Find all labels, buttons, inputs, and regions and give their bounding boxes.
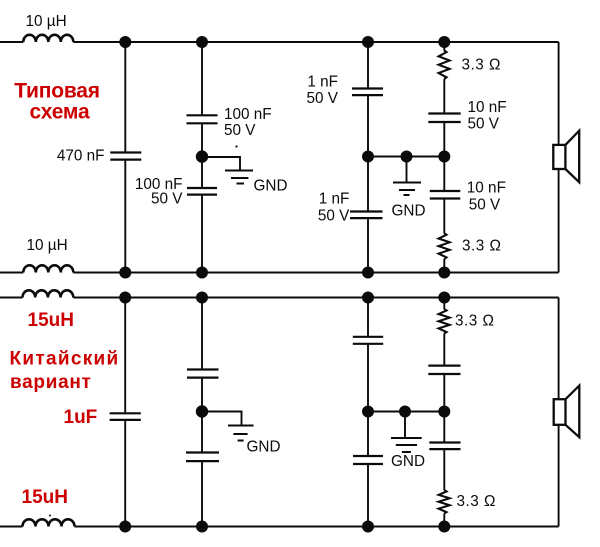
wire: circuit 2 right vertical (speaker branch) xyxy=(558,298,560,527)
capacitor 1uF plates xyxy=(110,413,141,420)
wire: circuit 2 column C middle xyxy=(367,345,369,455)
ground GND1 (circuit 1 node B) xyxy=(225,171,253,184)
capacitor (circuit 2 column B upper) plates xyxy=(187,370,219,378)
inductor 15uH bottom (circuit 2) xyxy=(23,519,75,526)
wire: circuit 2 GND4 stem xyxy=(404,412,406,438)
junction: circuit 2 top rail at column A xyxy=(119,292,131,304)
wire: circuit 2 column D upper xyxy=(443,334,445,365)
ground GND3 (circuit 2 node B) xyxy=(228,426,254,441)
junction: circuit 2 mid link at column D xyxy=(438,406,450,418)
junction: circuit 2 mid link GND tap xyxy=(399,406,411,418)
capacitor (circuit 2 column C upper) plates xyxy=(353,337,383,344)
svg-text:GND: GND xyxy=(254,178,288,195)
wire: circuit 1 column D top stub xyxy=(443,42,445,51)
wire: circuit 1 top rail left segment xyxy=(0,41,23,43)
junction: circuit 1 node B (GND tap) xyxy=(196,150,208,162)
value label 1 nF 50 V (upper) xyxy=(307,73,339,107)
value label 10 nF 50 V (lower) xyxy=(467,179,506,213)
wire: circuit 1 bottom rail left segment xyxy=(0,272,23,274)
capacitor 100 nF 50 V (lower) plates xyxy=(187,188,217,195)
value label 100 nF 50 V (lower) xyxy=(135,176,183,208)
junction: circuit 1 top rail at column D xyxy=(438,36,450,48)
ground GND2 (circuit 1 mid node) xyxy=(393,183,421,196)
junction: circuit 2 mid link at column C xyxy=(362,406,374,418)
svg-text:50 V: 50 V xyxy=(469,197,501,214)
wire: circuit 2 GND3 bracket xyxy=(202,412,242,425)
wire: circuit 1 middle link C to D xyxy=(368,156,444,158)
svg-text:схема: схема xyxy=(30,101,90,124)
value label 10 nF 50 V (upper) xyxy=(468,99,507,133)
junction: circuit 2 node B (GND tap) xyxy=(196,405,208,417)
wire: circuit 1 column B lower xyxy=(201,196,203,273)
junction: circuit 1 top rail at column A xyxy=(119,36,131,48)
capacitor (circuit 2 column D upper) plates xyxy=(428,366,460,374)
capacitor (circuit 2 column B lower) plates xyxy=(186,453,219,462)
capacitor (circuit 2 column D lower) plates xyxy=(429,443,460,450)
wire: circuit 1 column B middle xyxy=(201,124,203,187)
junction: circuit 1 bottom rail at column A xyxy=(119,267,131,279)
junction: circuit 2 bottom rail at column D xyxy=(438,521,450,533)
svg-text:10 µH: 10 µH xyxy=(27,237,68,254)
wire: circuit 2 column B middle xyxy=(201,379,203,452)
resistor 3.3 ohm (circuit 1 upper) xyxy=(439,50,450,79)
svg-text:Типовая: Типовая xyxy=(14,79,100,102)
wire: circuit 1 column B upper xyxy=(201,42,203,114)
svg-text:3.3 Ω: 3.3 Ω xyxy=(462,56,501,73)
inductor 15uH top (circuit 2) xyxy=(23,290,74,297)
speck above inductor 15uH bottom xyxy=(49,515,51,517)
wire: circuit 2 column D lower xyxy=(443,450,445,490)
wire: circuit 1 column D upper xyxy=(443,79,445,113)
wire: circuit 2 bottom rail right segment xyxy=(75,526,559,528)
wire: circuit 1 column C middle xyxy=(367,96,369,211)
capacitor 1 nF 50 V (lower) plates xyxy=(350,212,383,219)
wire: circuit 1 top rail right segment xyxy=(73,41,558,43)
capacitor 10 nF 50 V (lower) plates xyxy=(430,191,461,199)
wire: circuit 1 column C upper xyxy=(367,42,369,88)
junction: circuit 1 bottom rail at column C xyxy=(362,267,374,279)
svg-text:100 nF: 100 nF xyxy=(224,106,272,123)
junction: circuit 2 bottom rail at column B xyxy=(196,521,208,533)
junction: circuit 1 bottom rail at column B xyxy=(196,267,208,279)
junction: circuit 1 bottom rail at column D xyxy=(438,267,450,279)
svg-text:15uH: 15uH xyxy=(28,310,74,331)
value label 1 nF 50 V (lower) xyxy=(318,190,350,224)
wire: circuit 2 column C upper xyxy=(367,298,369,336)
wire: circuit 2 column B lower xyxy=(201,462,203,527)
speaker LS1 (circuit 1) xyxy=(553,131,579,183)
wire: circuit 2 column D bottom stub xyxy=(443,514,445,527)
wire: circuit 2 column D top stub xyxy=(443,298,445,310)
junction: circuit 1 mid link at column D xyxy=(438,151,450,163)
svg-text:50 V: 50 V xyxy=(307,90,339,107)
title label: Типовая схема xyxy=(14,79,100,123)
ground GND4 (circuit 2 mid node) xyxy=(391,438,422,452)
capacitor 1 nF 50 V (upper) plates xyxy=(352,89,383,96)
wire: circuit 1 column D lower xyxy=(443,199,445,233)
junction: circuit 1 mid link GND tap xyxy=(401,151,413,163)
svg-text:10 nF: 10 nF xyxy=(468,99,507,116)
wire: circuit 1 GND1 bracket xyxy=(202,157,240,170)
svg-text:3.3 Ω: 3.3 Ω xyxy=(457,493,496,510)
wire: circuit 1 column A lower xyxy=(124,161,126,273)
capacitor (circuit 2 column C lower) plates xyxy=(353,456,383,464)
svg-text:1 nF: 1 nF xyxy=(307,73,338,90)
inductor 10 uH top (circuit 1) xyxy=(23,35,73,42)
svg-text:10 nF: 10 nF xyxy=(467,179,506,196)
svg-text:3.3 Ω: 3.3 Ω xyxy=(462,238,501,255)
wire: circuit 2 bottom rail left segment xyxy=(0,526,23,528)
svg-text:50 V: 50 V xyxy=(151,191,183,208)
wire: circuit 2 column A upper xyxy=(124,298,126,413)
svg-text:вариант: вариант xyxy=(10,372,92,393)
svg-text:470 nF: 470 nF xyxy=(57,148,105,165)
junction: circuit 2 bottom rail at column C xyxy=(362,521,374,533)
svg-text:Китайский: Китайский xyxy=(10,348,120,369)
svg-text:50 V: 50 V xyxy=(224,122,256,139)
svg-text:3.3 Ω: 3.3 Ω xyxy=(455,312,494,329)
capacitor 100 nF 50 V (upper) plates xyxy=(187,115,218,123)
wire: circuit 2 column C lower xyxy=(367,465,369,527)
value label 100 nF 50 V (upper) xyxy=(224,106,272,139)
wire: circuit 2 top rail left segment xyxy=(0,297,23,299)
title label: Китайский вариант xyxy=(10,348,120,393)
svg-text:GND: GND xyxy=(392,203,426,220)
svg-text:GND: GND xyxy=(391,453,425,470)
svg-text:GND: GND xyxy=(247,439,281,456)
capacitor 10 nF 50 V (upper) plates xyxy=(428,114,460,123)
wire: circuit 1 GND2 stem xyxy=(406,157,408,182)
svg-text:50 V: 50 V xyxy=(318,208,350,225)
wire: circuit 2 column A lower xyxy=(124,421,126,527)
capacitor 470 nF plates xyxy=(110,153,141,160)
junction: circuit 2 bottom rail at column A xyxy=(119,521,131,533)
wire: circuit 1 bottom rail right segment xyxy=(73,272,558,274)
wire: circuit 1 right vertical (speaker branch) xyxy=(558,42,560,273)
junction: circuit 2 top rail at column D xyxy=(438,292,450,304)
junction: circuit 1 mid link at column C xyxy=(362,151,374,163)
wire: circuit 1 column D bottom stub xyxy=(443,259,445,273)
wire: circuit 1 column C lower xyxy=(367,219,369,273)
resistor 3.3 ohm (circuit 2 lower) xyxy=(439,490,450,514)
svg-text:1 nF: 1 nF xyxy=(319,190,350,207)
resistor 3.3 ohm (circuit 2 upper) xyxy=(439,309,450,333)
svg-text:50 V: 50 V xyxy=(468,116,500,133)
svg-text:10 µH: 10 µH xyxy=(26,13,67,30)
wire: circuit 1 column A upper xyxy=(124,42,126,152)
junction: circuit 1 top rail at column B xyxy=(196,36,208,48)
wire: circuit 2 middle link C to D xyxy=(368,411,444,413)
wire: circuit 2 column B upper xyxy=(201,298,203,369)
svg-text:1uF: 1uF xyxy=(64,407,98,428)
speck above GND1 xyxy=(235,145,237,147)
junction: circuit 2 top rail at column B xyxy=(196,292,208,304)
resistor 3.3 ohm (circuit 1 lower) xyxy=(439,233,450,259)
speaker LS2 (circuit 2) xyxy=(554,386,580,438)
inductor 10 uH bottom (circuit 1) xyxy=(23,265,73,272)
wire: circuit 1 column D middle xyxy=(443,123,445,190)
wire: circuit 2 top rail right segment xyxy=(73,297,558,299)
wire: circuit 2 column D middle xyxy=(443,375,445,442)
junction: circuit 1 top rail at column C xyxy=(362,36,374,48)
svg-text:15uH: 15uH xyxy=(22,487,68,508)
junction: circuit 2 top rail at column C xyxy=(362,292,374,304)
